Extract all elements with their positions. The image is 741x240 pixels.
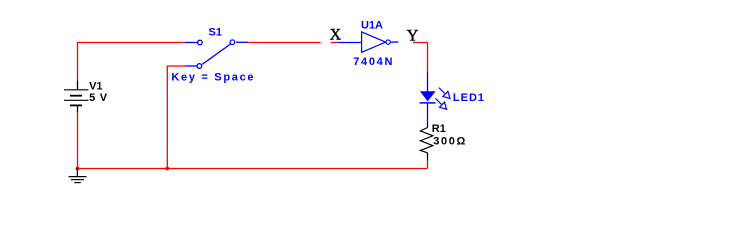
svg-text:5 V: 5 V — [89, 92, 108, 104]
svg-text:S1: S1 — [209, 27, 222, 39]
svg-text:7404N: 7404N — [353, 56, 394, 68]
svg-text:U1A: U1A — [361, 20, 383, 32]
svg-text:X: X — [330, 27, 342, 44]
svg-text:V1: V1 — [89, 80, 102, 92]
svg-text:Key = Space: Key = Space — [171, 72, 255, 84]
svg-text:R1: R1 — [432, 123, 446, 135]
svg-text:Y: Y — [407, 28, 419, 45]
svg-text:LED1: LED1 — [453, 92, 485, 104]
svg-text:300Ω: 300Ω — [433, 136, 467, 148]
